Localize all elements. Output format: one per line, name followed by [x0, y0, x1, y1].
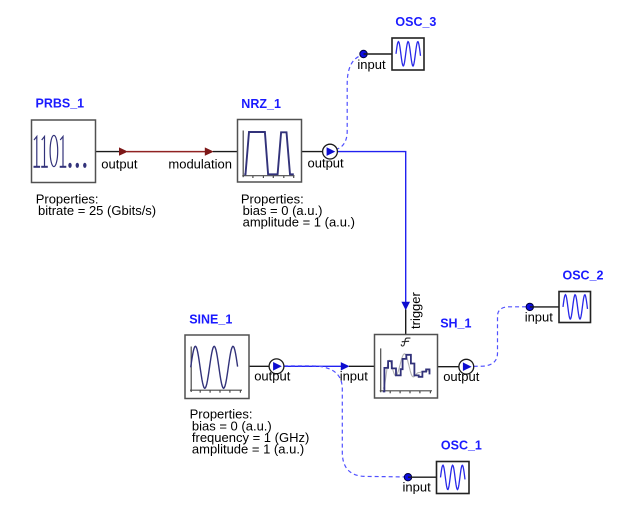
wire SH_1 output to probe (black)	[438, 366, 460, 368]
block OSC_3 box	[392, 38, 424, 70]
svg-text:bitrate = 25 (Gbits/s): bitrate = 25 (Gbits/s)	[38, 203, 156, 218]
probe node at NRZ_1 output (circle with play triangle)	[323, 144, 338, 159]
svg-text:amplitude = 1 (a.u.): amplitude = 1 (a.u.)	[243, 214, 355, 229]
SINE_1 icon waveform	[191, 346, 238, 388]
SH_1 icon function symbol	[401, 338, 410, 346]
wire OSC_1 input dot to box	[408, 476, 437, 478]
OSC_1 icon sine	[441, 465, 466, 489]
wire SINE probe to SH input (blue)	[284, 365, 342, 367]
svg-text:output: output	[308, 155, 345, 170]
probe node at SH_1 output	[459, 359, 474, 374]
pin label trigger (rotated)	[408, 291, 423, 329]
wire OSC_3 input dot to box	[364, 53, 393, 55]
pin label output (PRBS_1)	[101, 156, 138, 171]
NRZ_1 icon axes	[242, 131, 294, 179]
label SINE_1	[189, 312, 232, 326]
label PRBS_1	[36, 97, 85, 111]
svg-text:output: output	[443, 369, 480, 384]
pin label input (OSC_3)	[357, 57, 386, 72]
pin label input (SH_1)	[340, 369, 369, 384]
svg-text:output: output	[254, 369, 291, 384]
label OSC_3	[395, 15, 436, 29]
wire modulation segment (dark red)	[127, 151, 206, 153]
arrowhead on PRBS output wire	[119, 147, 128, 155]
label SH_1	[440, 317, 471, 331]
OSC_3 icon sine	[396, 42, 421, 66]
pin label output (NRZ_1)	[308, 155, 345, 170]
NRZ_1 icon waveform	[244, 132, 293, 174]
dashed monitor wire NRZ probe to OSC_3 input	[336, 55, 364, 150]
label NRZ_1	[241, 97, 281, 111]
dashed monitor wire SH probe to OSC_2 input	[474, 307, 527, 367]
pin label output (SINE_1)	[254, 369, 291, 384]
block OSC_2 box	[559, 292, 591, 323]
wire into SH_1 input port (black segment)	[349, 365, 375, 367]
svg-text:output: output	[101, 156, 138, 171]
svg-text:amplitude = 1 (a.u.): amplitude = 1 (a.u.)	[192, 442, 304, 457]
svg-text:trigger: trigger	[408, 291, 423, 329]
SINE_1 icon axes	[190, 347, 242, 393]
PRBS_1 properties text	[36, 191, 156, 218]
wire into NRZ_1 modulation port (black segment)	[213, 151, 238, 153]
svg-text:input: input	[525, 309, 554, 324]
wire into SH_1 trigger port (black segment)	[405, 310, 407, 335]
OSC_2 icon sine	[563, 295, 588, 319]
wire NRZ probe to trigger: blue horizontal then vertical	[338, 152, 406, 303]
svg-text:input: input	[357, 57, 386, 72]
svg-text:input: input	[340, 369, 369, 384]
svg-text:input: input	[403, 480, 432, 495]
pin label input (OSC_2)	[525, 309, 554, 324]
wire OSC_2 input dot to box	[530, 306, 559, 308]
node OSC_3 input (blue dot)	[360, 50, 367, 57]
NRZ_1 properties text	[241, 191, 355, 229]
pin label input (OSC_1)	[403, 480, 432, 495]
label OSC_2	[563, 269, 604, 283]
wire SINE_1 output to probe (black)	[249, 365, 269, 367]
svg-text:modulation: modulation	[168, 156, 232, 171]
SH_1 icon axes	[380, 348, 432, 393]
arrowhead at SH_1 input (blue, right)	[341, 362, 350, 370]
PRBS_1 icon digits 1101...	[34, 135, 87, 168]
label OSC_1	[441, 439, 482, 453]
block PRBS_1 box	[32, 120, 96, 183]
probe node at SINE_1 output	[269, 359, 284, 374]
node OSC_1 input (blue dot)	[404, 474, 411, 481]
svg-text:OSC_1: OSC_1	[441, 439, 482, 453]
dashed monitor wire SINE probe to OSC_1 input	[284, 366, 404, 477]
arrowhead trigger (blue, down)	[401, 302, 410, 311]
wire PRBS_1 output to NRZ_1 (black segment from PRBS)	[96, 151, 121, 153]
svg-text:SINE_1: SINE_1	[189, 312, 232, 326]
svg-text:PRBS_1: PRBS_1	[36, 97, 85, 111]
svg-text:OSC_3: OSC_3	[395, 15, 436, 29]
arrowhead at modulation input	[205, 147, 214, 155]
wire NRZ_1 output to probe (black)	[302, 151, 323, 153]
svg-text:NRZ_1: NRZ_1	[241, 97, 281, 111]
block SINE_1 box	[185, 335, 249, 399]
svg-text:SH_1: SH_1	[440, 317, 471, 331]
svg-text:OSC_2: OSC_2	[563, 269, 604, 283]
block SH_1 box	[375, 335, 438, 399]
pin label modulation	[168, 156, 232, 171]
pin label output (SH_1)	[443, 369, 480, 384]
block NRZ_1 box	[238, 120, 302, 183]
SH_1 icon analog signal (gray)	[383, 354, 430, 389]
node OSC_2 input (blue dot)	[526, 303, 533, 310]
block OSC_1 box	[437, 462, 470, 494]
SINE_1 properties text	[190, 406, 310, 456]
SH_1 icon sampled staircase waveform	[383, 355, 430, 392]
